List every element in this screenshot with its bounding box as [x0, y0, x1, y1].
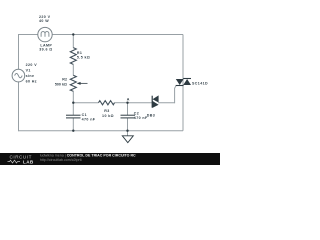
node junction R2 bottom	[72, 102, 74, 104]
wire gate riser up to triac gate	[175, 85, 177, 103]
svg-text:V1: V1	[26, 68, 31, 72]
voltage source V1 circle	[12, 69, 25, 82]
triac SC141D	[176, 79, 191, 86]
wire C2 bottom plate to bottom rail	[127, 118, 129, 131]
label C1 values	[82, 113, 96, 122]
label R3 values	[102, 109, 114, 118]
ground	[122, 131, 133, 143]
wire node A down to C2 top plate	[127, 103, 129, 116]
svg-text:C1: C1	[82, 113, 87, 117]
wire right vertical: triac branch	[182, 35, 184, 131]
label R1 values	[77, 51, 90, 59]
svg-text:DB3: DB3	[147, 113, 155, 117]
wire node A to diac	[128, 102, 153, 104]
svg-text:5.5 kΩ: 5.5 kΩ	[77, 55, 90, 59]
svg-text:500 kΩ: 500 kΩ	[55, 82, 67, 86]
wire top: lamp to triac branch	[52, 34, 183, 36]
wire diac to gate riser	[158, 102, 174, 104]
wire R1 to R2 link	[72, 64, 74, 75]
svg-text:R3: R3	[104, 109, 109, 113]
node junction C2 ground	[126, 130, 128, 132]
label lamp values top	[39, 15, 51, 23]
svg-text:R1: R1	[77, 51, 82, 55]
wire R1 branch drop from top rail	[72, 35, 74, 48]
node junction C1 bottom	[72, 130, 74, 132]
svg-text:sine: sine	[26, 74, 35, 78]
diac DB3	[152, 95, 158, 108]
svg-text:220 V: 220 V	[26, 63, 38, 67]
wire C1 bottom plate to bottom rail	[72, 118, 74, 131]
capacitor C1	[66, 115, 81, 118]
lamp LAMP	[38, 27, 52, 41]
capacitor C2	[121, 115, 136, 118]
resistor R1	[70, 48, 76, 65]
svg-text:C2: C2	[134, 111, 139, 115]
wire R2 bottom to mid node	[72, 91, 74, 103]
label V1 values	[26, 63, 38, 84]
wire top left: source to lamp	[19, 34, 39, 36]
wire mid horizontal: node to R3	[73, 102, 98, 104]
node junction A	[126, 102, 128, 104]
wire mid node to C1 top plate	[72, 103, 74, 115]
svg-text:LAB: LAB	[23, 159, 34, 164]
wire bottom rail	[19, 130, 184, 132]
node junction top R1 branch	[72, 33, 74, 35]
wire left vertical lower: source bottom to bottom rail	[18, 82, 20, 131]
resistor R3	[99, 101, 115, 105]
label R2 values	[55, 78, 67, 87]
label C2 values	[134, 111, 148, 120]
svg-text:39.6 Ω: 39.6 Ω	[39, 47, 52, 51]
svg-text:60 Hz: 60 Hz	[26, 79, 37, 83]
svg-text:40 W: 40 W	[39, 19, 49, 23]
svg-text:SC141D: SC141D	[192, 82, 208, 86]
svg-text:A: A	[127, 97, 130, 101]
footer bar	[0, 153, 220, 165]
wire left vertical upper: corner to source top	[18, 34, 20, 69]
svg-text:10 kΩ: 10 kΩ	[102, 114, 114, 118]
svg-text:470 nF: 470 nF	[82, 117, 96, 121]
svg-text:R2: R2	[62, 78, 67, 82]
svg-text:http://circuitlab.com/c2tpr6: http://circuitlab.com/c2tpr6	[40, 158, 82, 162]
footer caption text	[40, 154, 136, 162]
label lamp values bottom	[39, 44, 52, 52]
wire R3 to node A	[115, 102, 128, 104]
footer CircuitLab logo	[8, 154, 34, 164]
potentiometer R2	[70, 75, 87, 91]
